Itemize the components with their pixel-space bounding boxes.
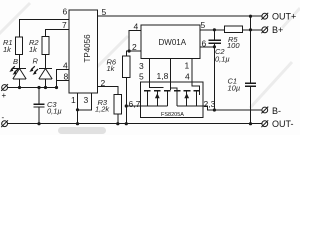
terminal B+ (261, 26, 268, 33)
wire DW01A pin4 (129, 31, 141, 52)
terminal IN+ (1, 84, 8, 91)
LED B (9, 66, 26, 79)
wire C2 top (213, 30, 215, 40)
terminal B- (261, 107, 268, 114)
svg-text:TP4056: TP4056 (83, 34, 92, 63)
wire pin8 TP4056 (57, 81, 70, 88)
svg-text:3: 3 (139, 61, 144, 71)
wire pin7 TP4056 to R2 (46, 30, 70, 37)
wire pin6 TP4056 to R1 (20, 20, 70, 38)
svg-text:0,1µ: 0,1µ (215, 55, 230, 64)
wire pin4 TP4056 (57, 70, 70, 81)
resistor R5 (225, 26, 243, 33)
transistor M2 (right half FS8205A) (174, 91, 203, 106)
svg-text:+: + (2, 91, 7, 100)
transistor M1 (left half FS8205A) (144, 91, 171, 106)
svg-text:B-: B- (272, 106, 281, 116)
wire DW01A pin5 (200, 29, 225, 31)
terminal OUT- (261, 120, 268, 127)
svg-text:1k: 1k (29, 45, 38, 54)
IC DW01A (141, 25, 200, 59)
svg-text:4: 4 (63, 61, 68, 71)
svg-text:5: 5 (201, 20, 206, 30)
svg-text:B: B (13, 57, 18, 66)
wire plus rail (8, 87, 57, 89)
svg-text:10µ: 10µ (228, 84, 241, 93)
svg-text:R: R (33, 57, 39, 66)
wire right fet drain link (171, 88, 178, 90)
wire C1 bottom (250, 86, 252, 123)
wire FS8205A pins 6,7 (126, 105, 147, 107)
svg-text:OUT+: OUT+ (272, 12, 296, 22)
svg-text:6: 6 (202, 39, 207, 49)
svg-text:-: - (2, 113, 5, 122)
svg-text:4: 4 (185, 72, 190, 82)
capacitor C3 (34, 104, 45, 107)
wire C2 bottom (213, 44, 215, 47)
wire DW01A pin3 gate drop (150, 59, 164, 88)
terminal OUT+ (261, 13, 268, 20)
svg-text:6: 6 (63, 7, 68, 17)
wire LED R anode (45, 79, 47, 88)
wire DW01A pin2 to R6 (126, 51, 141, 56)
wire pin2 TP4056 to R3 (98, 87, 118, 95)
wire R3 bottom (117, 114, 119, 124)
wire LED B cathode (19, 55, 21, 69)
svg-text:0,1µ: 0,1µ (47, 107, 62, 116)
wire ground rail (8, 123, 262, 125)
svg-text:4: 4 (134, 22, 139, 32)
svg-text:100: 100 (227, 41, 240, 50)
svg-text:8: 8 (64, 72, 69, 82)
svg-text:1: 1 (185, 61, 190, 71)
terminal IN- (1, 120, 8, 127)
svg-text:1k: 1k (3, 45, 12, 54)
svg-text:1,2k: 1,2k (95, 105, 110, 114)
svg-text:FS8205A: FS8205A (161, 112, 184, 118)
svg-text:2: 2 (132, 42, 137, 52)
wire BAT top rail (98, 15, 262, 17)
svg-text:2: 2 (101, 78, 106, 88)
watermark blob (58, 127, 106, 134)
resistor R6 (123, 56, 130, 78)
svg-text:1k: 1k (107, 64, 116, 73)
svg-text:5: 5 (139, 72, 144, 82)
wire C1 branch (250, 16, 252, 83)
IC FS8205A box (141, 82, 204, 118)
wire DW01A gnd drop to B- (213, 47, 215, 110)
svg-text:1: 1 (71, 95, 76, 105)
svg-text:B+: B+ (272, 25, 283, 35)
capacitor C1 (245, 83, 256, 86)
wire LED R cathode (45, 55, 47, 69)
svg-text:DW01A: DW01A (159, 38, 187, 47)
wire TP4056 gnd drop (77, 110, 79, 124)
svg-text:OUT-: OUT- (272, 119, 294, 129)
wire B- line (214, 109, 262, 111)
wire FS8205A pins 2,3 (203, 106, 214, 110)
wire C3 top (38, 88, 40, 104)
wire LED B anode (19, 79, 21, 88)
LED R (29, 66, 52, 79)
svg-text:7: 7 (62, 20, 67, 30)
svg-text:6,7: 6,7 (129, 99, 141, 109)
svg-text:1,8: 1,8 (157, 71, 169, 81)
wire C3 bottom (38, 107, 40, 124)
wire R6 bottom (125, 78, 127, 124)
resistor R3 (114, 95, 122, 115)
svg-text:5: 5 (102, 7, 107, 17)
watermark (0, 3, 300, 108)
resistor R1 (16, 37, 23, 55)
wire TP4056 gnd bracket (78, 93, 92, 110)
wire DW01A pin6 (200, 46, 214, 48)
capacitor C2 (209, 40, 221, 43)
resistor R2 (42, 37, 49, 55)
IC TP4056 (69, 10, 98, 93)
wire R5 to B+ (243, 29, 262, 31)
svg-text:3: 3 (84, 95, 89, 105)
wire common drain 1,8 (170, 59, 172, 91)
wire DW01A pin1 gate drop (192, 59, 199, 96)
svg-text:2,3: 2,3 (204, 99, 216, 109)
